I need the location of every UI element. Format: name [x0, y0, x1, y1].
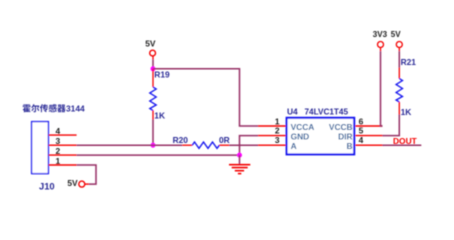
- wire node A to IC pin 1 (VCCA): [153, 69, 258, 126]
- connector J10 pin 1: [49, 156, 77, 166]
- svg-text:J10: J10: [39, 180, 55, 191]
- connector J10 pin 4: [49, 126, 77, 136]
- svg-text:DIR: DIR: [338, 131, 352, 141]
- wire connector pin3 to node B to R20: [77, 144, 183, 146]
- ground symbol: [229, 165, 250, 174]
- IC pin 6 stub: [355, 116, 382, 126]
- svg-text:A: A: [291, 141, 297, 151]
- svg-text:2: 2: [56, 146, 61, 156]
- svg-text:3: 3: [56, 136, 61, 146]
- power 5V (top right): [391, 30, 403, 51]
- svg-text:5V: 5V: [391, 30, 401, 39]
- label 霍尔传感器3144: [23, 104, 85, 114]
- svg-text:GND: GND: [291, 131, 310, 141]
- junction node C: [237, 153, 242, 158]
- resistor R20: [182, 142, 229, 148]
- wire connector pin2 to node C: [77, 154, 240, 156]
- IC pin 3 stub: [258, 135, 286, 145]
- power 5V (bottom left): [67, 178, 89, 188]
- wire R20 to IC pin 3 (A): [229, 144, 258, 146]
- svg-text:0R: 0R: [219, 135, 230, 145]
- wire 3V3 to IC pin 6 (VCCB): [381, 51, 383, 126]
- IC pin 4 stub: [355, 135, 382, 145]
- wire R19 bottom to node B: [152, 120, 154, 146]
- svg-text:5V: 5V: [67, 178, 78, 188]
- svg-text:DOUT: DOUT: [393, 136, 418, 146]
- svg-text:1K: 1K: [154, 111, 165, 121]
- resistor R21: [396, 68, 402, 115]
- wire node C to ground: [239, 155, 241, 164]
- junction node A: [151, 66, 156, 71]
- IC pin 5 stub: [355, 125, 382, 135]
- wire connector pin1 to 5V: [77, 165, 96, 184]
- wire DOUT from IC pin 4 (B): [383, 144, 422, 146]
- wire IC pin 2 (GND) to node C: [240, 136, 259, 156]
- svg-text:3: 3: [275, 135, 280, 145]
- svg-text:4: 4: [359, 135, 364, 145]
- svg-text:4: 4: [56, 126, 61, 136]
- svg-text:U4: U4: [287, 107, 298, 117]
- IC pin 2 stub: [258, 125, 286, 135]
- svg-text:B: B: [347, 141, 353, 151]
- svg-text:5V: 5V: [145, 39, 156, 49]
- resistor R19: [150, 69, 156, 120]
- IC pin 1 stub: [258, 116, 286, 126]
- svg-text:74LVC1T45: 74LVC1T45: [305, 108, 349, 117]
- svg-text:3144: 3144: [66, 104, 85, 114]
- IC U4 74LVC1T45 body: [287, 118, 355, 155]
- wire R21 to IC pin 5 (DIR): [383, 115, 400, 136]
- svg-text:1K: 1K: [401, 107, 412, 117]
- svg-text:R20: R20: [173, 135, 189, 145]
- power 3V3 (top right): [373, 30, 388, 51]
- wire 5V stem to node A: [152, 60, 154, 69]
- svg-text:1: 1: [56, 156, 61, 166]
- connector J10 body: [32, 122, 49, 174]
- wire 5V to R21: [398, 51, 400, 67]
- svg-text:3V3: 3V3: [373, 30, 388, 39]
- connector J10 pin 3: [49, 136, 77, 146]
- svg-text:R21: R21: [401, 57, 417, 67]
- junction node B: [151, 143, 156, 148]
- connector J10 pin 2: [49, 146, 77, 156]
- svg-text:5: 5: [359, 125, 364, 135]
- svg-text:2: 2: [275, 125, 280, 135]
- power 5V (top, R19): [145, 39, 156, 60]
- svg-text:R19: R19: [154, 70, 170, 80]
